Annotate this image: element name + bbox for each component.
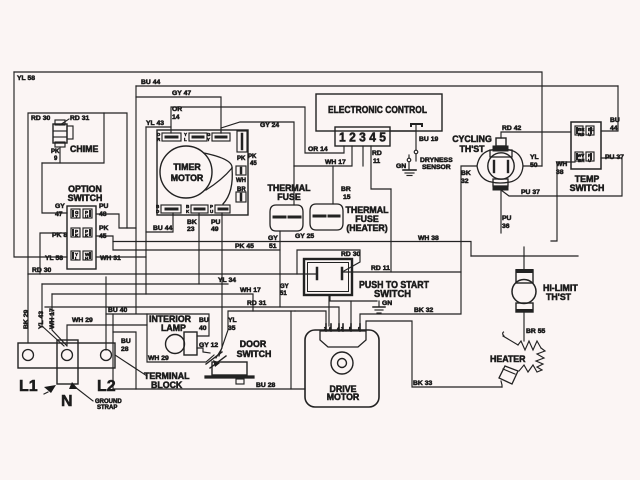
svg-text:BU 44: BU 44: [141, 79, 160, 86]
svg-text:WH: WH: [556, 161, 567, 168]
wire YL 43 riser: [38, 284, 64, 346]
svg-text:45: 45: [250, 161, 257, 167]
svg-text:BU 19: BU 19: [419, 136, 438, 143]
svg-text:YL: YL: [228, 317, 237, 324]
wire PU 37: [501, 154, 624, 196]
svg-text:GY: GY: [55, 203, 65, 210]
svg-text:15: 15: [343, 194, 351, 201]
svg-text:GN: GN: [382, 300, 392, 307]
wire option switch GY47 stub: [42, 163, 67, 213]
svg-text:SWITCH: SWITCH: [374, 289, 411, 300]
svg-text:RD 31: RD 31: [70, 115, 89, 122]
timer bottom terminals: [156, 204, 230, 214]
svg-text:U: U: [588, 132, 591, 137]
svg-text:11: 11: [373, 158, 380, 165]
svg-text:WH 29: WH 29: [148, 355, 169, 362]
thermal fuse F1: [267, 166, 311, 231]
svg-text:BR: BR: [341, 186, 351, 193]
interior lamp box: [147, 314, 214, 362]
wire BU 44 top run: [136, 79, 620, 313]
svg-text:YL 43: YL 43: [38, 311, 45, 329]
svg-text:BK 29: BK 29: [23, 310, 30, 329]
svg-text:DOOR: DOOR: [240, 339, 267, 349]
svg-text:PU: PU: [211, 219, 221, 226]
wire WH 17 control: [294, 146, 391, 272]
option switch S1: [52, 184, 121, 269]
wire YL 34: [42, 277, 236, 284]
wire BR 15: [333, 166, 351, 204]
svg-text:OR 14: OR 14: [308, 146, 328, 153]
wire push bottom to motor: [328, 295, 330, 326]
svg-text:GY 25: GY 25: [295, 233, 314, 240]
wire GY 12: [197, 342, 218, 353]
svg-text:YL 58: YL 58: [17, 75, 35, 82]
wire WH 17 braid: [52, 287, 261, 311]
svg-text:PU: PU: [502, 215, 512, 222]
cycling thermostat: [452, 134, 523, 190]
svg-text:WH 17: WH 17: [49, 308, 56, 329]
wire BK 23: [187, 213, 199, 284]
wire BK 29: [23, 274, 30, 343]
svg-text:WH 38: WH 38: [418, 235, 439, 242]
svg-text:BLOCK: BLOCK: [151, 380, 183, 390]
svg-text:RD: RD: [578, 132, 585, 137]
svg-text:U: U: [210, 209, 213, 214]
svg-text:BR 55: BR 55: [526, 328, 545, 335]
svg-text:WH 17: WH 17: [325, 159, 346, 166]
svg-text:40: 40: [199, 325, 207, 332]
wire PU 49: [211, 213, 222, 358]
wire PU 36: [501, 190, 512, 233]
svg-text:(HEATER): (HEATER): [346, 223, 387, 233]
svg-text:BU: BU: [121, 338, 131, 345]
wire hi-limit crossing: [471, 255, 578, 257]
wire PK 8: [40, 233, 67, 274]
svg-text:SWITCH: SWITCH: [68, 193, 103, 203]
door switch: [206, 311, 295, 384]
svg-text:N: N: [61, 393, 73, 410]
drive motor M2: [305, 324, 379, 407]
svg-text:50: 50: [530, 162, 538, 169]
wire door area to motor pin: [295, 311, 326, 324]
svg-text:51: 51: [280, 291, 287, 297]
electronic control box: [316, 94, 442, 131]
wire RD 30 braid: [28, 267, 316, 274]
svg-text:TH'ST: TH'ST: [459, 144, 485, 154]
wire WH 38 temp switch: [551, 161, 575, 241]
svg-text:GN: GN: [396, 163, 406, 170]
svg-text:38: 38: [556, 169, 564, 176]
svg-text:DRYNESS: DRYNESS: [420, 157, 453, 164]
ground strap: [44, 382, 122, 411]
svg-text:51: 51: [269, 243, 277, 250]
svg-text:PU 37: PU 37: [605, 154, 624, 161]
svg-text:Y: Y: [207, 137, 210, 142]
ground GN push to start: [330, 295, 392, 326]
svg-text:YL 58: YL 58: [45, 255, 63, 262]
wire OR 14 control label: [308, 146, 328, 153]
svg-text:L: L: [75, 256, 78, 261]
svg-text:36: 36: [502, 223, 510, 230]
svg-text:BU: BU: [199, 317, 209, 324]
svg-text:PU 37: PU 37: [521, 189, 540, 196]
svg-text:RD 31: RD 31: [247, 300, 266, 307]
svg-text:L: L: [184, 137, 187, 142]
svg-text:BK: BK: [187, 219, 197, 226]
svg-text:TH'ST: TH'ST: [546, 292, 572, 302]
svg-text:ELECTRONIC CONTROL: ELECTRONIC CONTROL: [328, 104, 427, 116]
svg-text:CHIME: CHIME: [70, 144, 98, 154]
wire WH 17 riser: [49, 294, 67, 346]
svg-text:GY 12: GY 12: [199, 342, 218, 349]
wire BU 44 timer bottom: [146, 213, 173, 232]
svg-text:Y: Y: [75, 214, 78, 219]
interior lamp LP1: [149, 314, 197, 355]
svg-text:47: 47: [55, 211, 63, 218]
svg-text:28: 28: [121, 346, 129, 353]
wire GY 24: [221, 122, 294, 166]
svg-text:U: U: [85, 214, 88, 219]
svg-text:RD 30: RD 30: [341, 251, 360, 258]
svg-text:RD 30: RD 30: [31, 115, 50, 122]
dryness sensor: [396, 124, 453, 176]
svg-text:L2: L2: [97, 378, 116, 395]
svg-text:RD 30: RD 30: [32, 267, 51, 274]
svg-text:PU: PU: [99, 203, 109, 210]
svg-text:BU 40: BU 40: [108, 307, 127, 314]
wire BR 55: [524, 313, 545, 341]
svg-text:MOTOR: MOTOR: [171, 173, 204, 183]
electronic control connector 1 2 3 4 5: [335, 127, 390, 146]
svg-text:BU: BU: [610, 117, 620, 124]
wire BU 40: [106, 277, 209, 350]
wire BK 33: [366, 321, 502, 387]
svg-text:GY 47: GY 47: [172, 90, 191, 97]
svg-text:BU 28: BU 28: [256, 382, 275, 389]
timer right internal contacts PK WH BR: [236, 131, 257, 202]
svg-text:PK: PK: [237, 156, 246, 162]
svg-text:BK 32: BK 32: [414, 307, 433, 314]
svg-text:H: H: [85, 256, 88, 261]
svg-text:PK: PK: [248, 154, 257, 160]
wire PK 45: [96, 236, 471, 256]
thermal fuse heater F2: [295, 204, 389, 240]
wire YL 58 top border: [14, 72, 542, 262]
svg-text:OR: OR: [172, 106, 182, 113]
svg-text:RD: RD: [372, 150, 382, 157]
wire GY 47: [136, 90, 221, 133]
svg-text:GY: GY: [268, 235, 278, 242]
temp switch: [570, 122, 605, 193]
svg-text:GY 24: GY 24: [260, 122, 279, 129]
svg-text:WH 17: WH 17: [240, 287, 261, 294]
svg-text:CYCLING: CYCLING: [452, 134, 492, 144]
svg-text:SENSOR: SENSOR: [422, 164, 451, 171]
svg-text:BK 33: BK 33: [413, 380, 432, 387]
wire YL 50: [523, 154, 542, 169]
svg-text:WH 31: WH 31: [100, 255, 121, 262]
wire WH 31: [96, 256, 146, 258]
wire WH 38 run: [418, 235, 439, 242]
svg-text:BK: BK: [461, 170, 471, 177]
svg-text:U: U: [588, 158, 591, 163]
timer top terminals: [157, 132, 230, 142]
svg-text:FUSE: FUSE: [277, 192, 301, 202]
svg-text:GY: GY: [280, 284, 289, 290]
svg-text:1 2 3 4 5: 1 2 3 4 5: [339, 130, 386, 145]
svg-text:32: 32: [461, 178, 469, 185]
svg-text:49: 49: [211, 226, 219, 233]
svg-text:WH 29: WH 29: [72, 317, 93, 324]
svg-text:MOTOR: MOTOR: [327, 392, 360, 402]
push to start switch: [297, 250, 429, 300]
wire RD 42: [501, 125, 571, 138]
wire OR 14 timer feed: [146, 106, 344, 294]
svg-text:HEATER: HEATER: [490, 354, 526, 364]
wire WH 29: [67, 317, 147, 345]
wire PU 48: [96, 214, 136, 228]
svg-text:YL: YL: [530, 154, 539, 161]
wire GY 51: [268, 231, 289, 307]
svg-text:BH: BH: [578, 158, 585, 163]
svg-text:23: 23: [187, 226, 195, 233]
svg-text:35: 35: [228, 325, 236, 332]
svg-text:PK 45: PK 45: [235, 243, 254, 250]
chime enclosure box: [28, 113, 127, 274]
svg-text:STRAP: STRAP: [97, 405, 117, 411]
svg-text:BU 44: BU 44: [153, 225, 172, 232]
svg-text:SWITCH: SWITCH: [237, 349, 272, 359]
svg-text:14: 14: [172, 114, 180, 121]
wire RD 11: [371, 146, 391, 189]
svg-text:YL 34: YL 34: [218, 277, 236, 284]
svg-text:L1: L1: [19, 378, 38, 395]
svg-text:SWITCH: SWITCH: [570, 183, 605, 193]
chime CH1: [51, 119, 98, 163]
svg-text:PK: PK: [99, 225, 109, 232]
svg-text:TIMER: TIMER: [173, 162, 201, 172]
hi-limit thermostat: [512, 247, 578, 313]
timer motor M1: [160, 146, 232, 204]
svg-text:YL 43: YL 43: [146, 120, 164, 127]
wire RD 11 run: [343, 265, 461, 272]
wire BU 19 dryness feed: [390, 131, 438, 143]
svg-text:WH: WH: [236, 178, 246, 184]
svg-text:LAMP: LAMP: [161, 323, 186, 333]
svg-text:44: 44: [610, 125, 618, 132]
wire BU 28 enclosure: [113, 311, 305, 389]
terminal block: [18, 340, 190, 410]
svg-text:RD 11: RD 11: [371, 265, 390, 272]
svg-text:RD 42: RD 42: [502, 125, 521, 132]
heater HTR1: [490, 332, 545, 387]
timer box: [157, 130, 248, 215]
wire BK 32: [360, 166, 477, 326]
svg-text:PK: PK: [51, 149, 60, 155]
wire RD 31 braid: [45, 300, 339, 326]
